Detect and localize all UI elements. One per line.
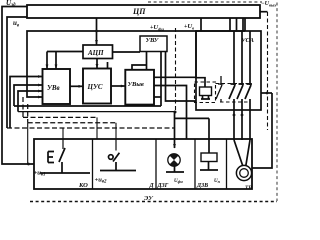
svg-text:ТВ: ТВ <box>245 185 252 191</box>
wire bus y123 down to bottom box corner <box>27 123 29 164</box>
dashed segment contactor bottom <box>220 101 250 103</box>
wire ЦУС top entry 2 <box>107 62 109 69</box>
phase wire 3 from CPU <box>242 18 244 31</box>
contactor coil КЛ <box>200 87 212 96</box>
svg-text:УВУ: УВУ <box>146 37 160 44</box>
junction dot phase 2 <box>241 114 244 117</box>
svg-text:Д: Д <box>149 183 155 189</box>
phase line 3 below converter <box>249 110 251 140</box>
junction dot phase 1 <box>233 114 236 117</box>
switch КО contact <box>48 148 65 173</box>
contactor contact 3 <box>245 31 252 110</box>
arrowhead <box>38 84 43 87</box>
svg-text:ЭУ: ЭУ <box>144 195 154 202</box>
motor feed wires <box>234 140 250 166</box>
svg-text:ДЗГ: ДЗГ <box>157 183 169 189</box>
arrowhead <box>79 85 84 88</box>
arrowhead into УВв top 2 <box>55 65 58 70</box>
wire sensor ДЗГ down <box>174 112 176 148</box>
svg-text:+uв1: +uв1 <box>34 170 46 178</box>
svg-text:−Uвых: −Uвых <box>261 1 277 8</box>
svg-text:КО: КО <box>78 182 88 189</box>
block ЦУС <box>83 69 111 104</box>
coil legs <box>201 96 210 100</box>
arrowhead into АЦП <box>95 40 98 45</box>
junction dot sensor/bus <box>174 111 177 114</box>
block УВыв <box>125 70 154 105</box>
svg-text:ЦУС: ЦУС <box>87 83 103 91</box>
contactor contact 1 <box>229 31 236 110</box>
feedback wire input1 of УВв <box>10 77 43 129</box>
wire -Uвых stub <box>260 11 268 13</box>
svg-text:УСА: УСА <box>241 37 255 44</box>
junction dot <box>266 92 269 95</box>
solid feedback bus y106 to УВУ <box>14 51 161 106</box>
switch 2 base <box>100 170 136 172</box>
wire bus y123 down to switch2 <box>115 123 117 139</box>
sensor ДЗВ body <box>201 153 217 162</box>
contactor contact 2 <box>237 31 244 110</box>
wire АЦП left to УВв top entries <box>47 52 83 70</box>
switch КО base <box>40 172 90 174</box>
dashed sensor line Uфи up <box>175 28 177 112</box>
wire uв from CPU down left side <box>7 17 27 128</box>
block УВв <box>43 69 71 104</box>
wire УВыв right 2 down <box>154 86 187 140</box>
converter box <box>196 31 261 110</box>
wire bus y117 down to bottom box <box>96 117 98 139</box>
wire Uзд to bottom box <box>2 7 34 165</box>
arrowhead into УВв input 4 <box>38 96 43 99</box>
switch КО stub <box>62 139 64 149</box>
motor ТВ outer circle <box>236 165 251 180</box>
svg-text:+Uв: +Uв <box>184 23 194 31</box>
wire АЦП right stub to УВУ <box>113 51 141 53</box>
sensor ДЗГ circle <box>168 154 180 166</box>
wire УВУ down to УВыв <box>132 51 147 70</box>
wire armature down to motor <box>252 93 272 168</box>
phase wire 2 from CPU <box>236 18 238 31</box>
junction dot <box>95 30 98 33</box>
wire ЦУС to УВыв <box>111 85 125 87</box>
arrowhead <box>38 90 43 93</box>
wire УВУ right edge down to converter <box>166 51 197 101</box>
feedback wire input3 of УВв <box>18 91 43 112</box>
solid feedback bus y112 from sensor ДЗГ <box>18 111 176 113</box>
sensor ДЗГ base <box>166 171 184 173</box>
arrowhead <box>121 85 126 88</box>
arrowhead into ЦУС <box>96 64 99 69</box>
svg-text:+uв2: +uв2 <box>95 177 108 185</box>
svg-text:ЦП: ЦП <box>132 7 146 16</box>
dashed feedback line right <box>267 12 269 130</box>
firing pulse wire УВыв to converter <box>154 76 196 78</box>
phase wire 1 from CPU <box>229 18 231 31</box>
block CPU (ЦП) <box>27 5 260 18</box>
switch 2 contact <box>113 153 119 171</box>
phase line 2 below converter <box>241 110 243 140</box>
arrowhead <box>38 75 43 78</box>
svg-text:АЦП: АЦП <box>87 49 104 57</box>
dashed bus y128 <box>7 127 174 129</box>
ADC box АЦП <box>83 45 113 59</box>
dashed feedback bus y123 <box>28 104 116 123</box>
switch 2 stub <box>115 139 117 151</box>
wire УВыв right 3 <box>154 96 161 98</box>
wire CPU to converter control <box>200 18 202 31</box>
wire switch1 stub to dashed bus <box>62 128 64 139</box>
divider 1 <box>92 139 94 189</box>
dashed box around coil <box>195 82 216 103</box>
svg-text:Uфи: Uфи <box>174 179 183 184</box>
divider 4 <box>226 139 228 189</box>
outer dashed frame <box>30 2 277 202</box>
dashed feedback bus y117 <box>23 97 97 117</box>
box УВУ <box>140 36 167 52</box>
svg-text:УВыв: УВыв <box>128 81 144 88</box>
svg-text:+Uфи: +Uфи <box>150 24 164 32</box>
divider 2 <box>155 139 157 189</box>
svg-text:uв: uв <box>13 19 20 29</box>
sensor ДЗГ filled quadrants <box>170 154 179 166</box>
svg-text:ДЗВ: ДЗВ <box>196 183 208 189</box>
sensor ДЗВ base <box>200 169 218 171</box>
wire CPU to АЦП <box>96 18 98 45</box>
arrowhead down on sensor wire <box>173 144 176 149</box>
bus L2 from CPU <box>27 18 245 97</box>
dashed linkage line <box>216 83 252 85</box>
wire to sensor ДЗВ <box>175 118 210 153</box>
converter right stub <box>261 92 272 94</box>
phase line 1 below converter <box>233 110 235 140</box>
sensor ДЗГ lead <box>174 166 176 172</box>
divider 3 <box>194 139 196 189</box>
switch 2 roller <box>109 155 114 160</box>
wire АЦП down to ЦУС <box>96 59 98 69</box>
motor ТВ inner circle <box>240 169 249 178</box>
sensor ДЗВ lead <box>208 162 210 171</box>
arrowhead into УВв top 1 <box>46 65 49 70</box>
feedback wire input2 of УВв <box>14 85 43 106</box>
contactor aux contact <box>216 76 224 102</box>
svg-text:УВв: УВв <box>47 84 60 92</box>
wire to contactor coil <box>196 31 205 87</box>
junction dot <box>27 163 30 166</box>
bottom box ЭУ <box>34 139 252 189</box>
svg-text:Uп: Uп <box>214 179 221 184</box>
wire УВв to ЦУС <box>70 85 83 87</box>
